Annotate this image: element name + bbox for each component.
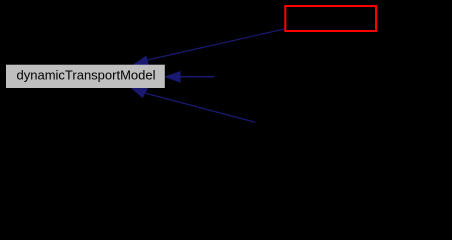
wire: bottom edge from lower right into dynamicTransportModel [131, 88, 255, 122]
wire: edge from red box to dynamicTransportModel [133, 29, 284, 66]
node: current class (red box) [285, 6, 376, 31]
wire: middle horizontal edge into dynamicTransportModel [165, 71, 214, 82]
svg-text:dynamicTransportModel: dynamicTransportModel [17, 68, 156, 83]
node dynamicTransportModel (grey box) [6, 65, 165, 88]
